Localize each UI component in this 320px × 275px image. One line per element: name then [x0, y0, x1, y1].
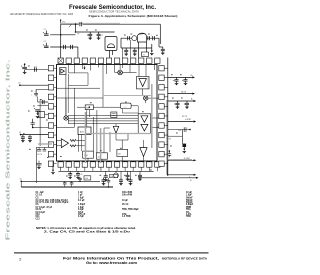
- capacitor C21 junction: [31, 122, 35, 124]
- capacitor C41 to ground: [77, 171, 79, 173]
- gray streak interior h: [86, 133, 152, 135]
- capacitor C50 bottom: [130, 178, 132, 180]
- mixer X1 crossed circle: [118, 70, 123, 75]
- capacitor C11 series: [147, 36, 149, 40]
- wire right bus: [167, 58, 169, 177]
- svg-text:C8 %: C8 %: [36, 209, 42, 211]
- wire interior verticals: [65, 75, 67, 116]
- svg-text:C9 C8: C9 C8: [37, 154, 42, 156]
- capacitor C33 to ground: [186, 101, 188, 103]
- svg-text:VB: VB: [190, 180, 192, 182]
- capacitor C25 to ground: [37, 162, 42, 164]
- op-amp A4 triangle: [61, 139, 68, 148]
- svg-text:C2 0.1: C2 0.1: [36, 194, 43, 196]
- svg-text:C1: C1: [44, 29, 46, 31]
- wire STBY line: [168, 159, 194, 161]
- svg-text:Figure 4. Applications Schemat: Figure 4. Applications Schematic (MC3411…: [89, 14, 178, 18]
- block AGC box: [78, 127, 91, 135]
- arrow down interior: [84, 66, 86, 68]
- svg-text:2: 2: [19, 257, 21, 261]
- wire pin stubs right: [164, 67, 168, 69]
- capacitor C22 to ground: [22, 135, 24, 137]
- svg-text:ARCHIVED BY FREESCALE SEMICOND: ARCHIVED BY FREESCALE SEMICONDUCTOR, INC…: [10, 12, 73, 16]
- svg-text:C4: C4: [80, 174, 82, 176]
- tiny value labels: [86, 30, 88, 31]
- wire bottom bus: [58, 170, 153, 172]
- wire bias: [77, 106, 85, 108]
- wire second top line: [76, 31, 115, 33]
- svg-text:1.0µF: 1.0µF: [186, 194, 193, 196]
- capacitor C19 series: [41, 100, 43, 104]
- svg-text:C2: C2: [44, 41, 46, 43]
- gray streak right bus: [166, 100, 168, 160]
- wire bottom second: [21, 186, 113, 188]
- svg-text:C36: C36: [85, 178, 88, 180]
- amp A6 triangle down: [140, 148, 147, 157]
- wire Vb line: [166, 160, 168, 175]
- crystal Y1 can: [138, 33, 147, 42]
- svg-text:1 µF: 1 µF: [78, 194, 83, 196]
- wire top pin drops: [74, 63, 76, 73]
- circle jack J3: [114, 173, 119, 178]
- capacitor C12 plus: [152, 36, 154, 40]
- wire oscillator main: [121, 37, 159, 39]
- wire amp4: [57, 140, 62, 142]
- wire R line: [168, 135, 183, 137]
- svg-text:C34: C34: [178, 130, 181, 132]
- svg-text:RX TX: RX TX: [182, 116, 188, 118]
- summer S1 rounded box: [120, 103, 131, 108]
- node J2 wire: [20, 134, 22, 136]
- wire interior connects: [57, 97, 104, 99]
- mixer X2 crossed circle: [144, 96, 148, 100]
- wire cap row: [168, 129, 190, 131]
- capacitor C3 series lower: [63, 45, 65, 49]
- wire from input caps lower: [50, 46, 78, 48]
- block BIAS box: [85, 105, 93, 110]
- capacitor C2 electrolytic input: [44, 45, 49, 47]
- svg-text:MC IN: MC IN: [181, 91, 187, 93]
- microphone MK1: [105, 37, 117, 51]
- svg-text:25.4 k: 25.4 k: [122, 203, 129, 206]
- capacitor C23 to ground: [29, 135, 31, 137]
- node VCC top-left: [60, 20, 62, 24]
- capacitor C34: [183, 127, 185, 132]
- pin 1 index mark: [58, 58, 63, 63]
- capacitor C43 to ground: [127, 173, 129, 175]
- ground arrow osc: [151, 44, 153, 51]
- resistor R3: [70, 145, 76, 147]
- svg-text:+: +: [170, 79, 171, 81]
- component box small on bus: [84, 176, 91, 180]
- svg-text:C12: C12: [36, 218, 41, 220]
- capacitor C6 to ground: [89, 32, 91, 34]
- wire to pin row1: [25, 69, 49, 71]
- svg-text:4.7µF: 4.7µF: [78, 215, 85, 218]
- wire interior h1: [57, 87, 101, 89]
- svg-text:OSC: OSC: [84, 155, 89, 157]
- svg-text:Go to: www.freescale.com: Go to: www.freescale.com: [86, 261, 137, 265]
- wire dual out: [151, 117, 159, 119]
- capacitor C20 electrolytic: [35, 109, 40, 111]
- gray scan streak on top rail: [60, 22, 120, 24]
- node J4 bottom-left wire: [20, 181, 22, 183]
- svg-text:-8 STBY: -8 STBY: [185, 119, 192, 121]
- svg-text:For More Information On This P: For More Information On This Product,: [63, 256, 159, 260]
- capacitor C31 to ground: [185, 77, 187, 79]
- wire osc drops: [138, 42, 140, 58]
- mixer X3 crossed circle left: [64, 116, 68, 120]
- cluster caps mid: [79, 177, 81, 179]
- capacitor C40 to ground: [69, 171, 71, 173]
- capacitor C36 small: [168, 153, 172, 155]
- capacitor C32 to ground: [177, 101, 179, 103]
- IC top pin row (pins 1-13): [58, 58, 63, 63]
- amp A5 small triangle: [113, 126, 118, 133]
- wire mid-left upper: [36, 89, 48, 91]
- gray streak horizontal: [38, 143, 52, 145]
- op-amp U1 IC body outline: [57, 65, 158, 162]
- component box B1: [39, 112, 45, 118]
- svg-text:C48: C48: [110, 176, 113, 178]
- svg-text:A+: A+: [191, 98, 193, 101]
- svg-text:TBA: TBA: [186, 208, 191, 211]
- gray streak stby: [169, 159, 193, 161]
- IC right pin column: [159, 66, 164, 71]
- svg-text:MOTOROLA RF DEVICE DATA: MOTOROLA RF DEVICE DATA: [162, 256, 208, 260]
- block DAC box: [111, 112, 117, 117]
- wire amp feeds: [138, 63, 140, 76]
- capacitor C46 between: [71, 181, 73, 183]
- capacitor C48 bottom: [103, 178, 105, 180]
- op-amp A2 box with down triangle: [137, 77, 150, 89]
- gray streak interior 3: [151, 84, 153, 148]
- capacitor C13 to ground: [125, 48, 127, 50]
- capacitor C42 to ground: [105, 174, 107, 176]
- wire top rail: [61, 23, 79, 25]
- wire RX line: [168, 121, 194, 123]
- capacitor C49 bottom: [120, 178, 122, 180]
- gray streak interior h2: [103, 95, 152, 97]
- wire to pin: [45, 114, 49, 116]
- svg-text:0.1 µF: 0.1 µF: [78, 200, 85, 202]
- capacitor C35 dark: [183, 144, 187, 147]
- wire mid-left: [38, 101, 49, 103]
- component box X2: [142, 52, 149, 57]
- wire interior loop: [69, 63, 89, 85]
- svg-text:TBD, TBD 33µF: TBD, TBD 33µF: [122, 209, 139, 211]
- wire left pin stubs: [54, 67, 57, 69]
- capacitor C24 pair: [37, 149, 41, 151]
- resistor R2: [70, 140, 76, 142]
- block MUTE box: [117, 149, 128, 156]
- capacitor C18 to ground small: [34, 92, 38, 94]
- block OSC box: [83, 151, 94, 158]
- op-amp A1 box top-left: [60, 68, 66, 75]
- wire bus drop: [67, 116, 69, 124]
- svg-text:100 nF/W: 100 nF/W: [122, 194, 133, 196]
- capacitor C30 to ground: [176, 77, 178, 79]
- svg-text:X1: X1: [143, 54, 145, 56]
- block FLT box: [96, 153, 107, 159]
- svg-text:C7: C7: [101, 35, 103, 37]
- capacitor C45 between: [64, 181, 66, 183]
- wire osc to right cap: [158, 38, 160, 47]
- capacitor C1 electrolytic input: [44, 33, 49, 35]
- wire from input caps upper: [50, 34, 75, 36]
- wire bottom right out: [138, 177, 196, 179]
- gray streak interior 2: [100, 128, 102, 163]
- wire bottom pin drops: [60, 167, 62, 171]
- svg-text:10 µF: 10 µF: [122, 200, 129, 202]
- wire mixer2: [148, 97, 159, 99]
- wire left drop: [35, 147, 37, 183]
- capacitor C14 to ground: [134, 48, 136, 50]
- svg-text:NOTES: 1. All resistors are ±: NOTES: 1. All resistors are ±5%, all cap…: [36, 227, 136, 230]
- wire lower left: [36, 146, 48, 148]
- wire AUX line: [168, 100, 194, 102]
- IC left pin column: [48, 66, 53, 71]
- switch tick: [69, 24, 72, 27]
- wire MC line: [168, 93, 193, 95]
- svg-text:TBD: TBD: [186, 216, 191, 218]
- capacitor C47 between: [108, 178, 110, 181]
- wire B+ line: [168, 76, 193, 78]
- wire bus 4lines: [68, 115, 138, 117]
- svg-text:Freescale Semiconductor, Inc.: Freescale Semiconductor, Inc.: [5, 59, 11, 241]
- svg-text:C5 47 % 100, C4F 100% 47µFd: C5 47 % 100, C4F 100% 47µFd: [36, 201, 69, 204]
- svg-text:AGC: AGC: [80, 130, 85, 133]
- wire interior extra verticals: [78, 135, 80, 152]
- node J1 wire: [19, 84, 21, 86]
- transistor Q1 osc circle: [132, 36, 137, 41]
- capacitor C17 series: [34, 68, 36, 72]
- wire a5: [115, 124, 117, 127]
- wire to mixer: [115, 72, 118, 74]
- IC bottom pin row: [58, 162, 63, 167]
- gray streak interior 1: [85, 112, 87, 163]
- svg-text:C17: C17: [34, 66, 37, 68]
- svg-text:0.1µF: 0.1µF: [78, 209, 85, 211]
- capacitor C7 to ground: [98, 32, 100, 34]
- capacitor C10 series: [127, 36, 129, 40]
- gray scan streak left: [39, 99, 41, 146]
- svg-text:R1: R1: [169, 138, 171, 140]
- svg-text:2. Cap C4, C5 and Cxx Bias § 1: 2. Cap C4, C5 and Cxx Bias § 1/5 v.Do: [44, 230, 131, 233]
- op-amp A3 dual box: [138, 114, 151, 134]
- capacitor C15 to ground: [162, 47, 164, 49]
- capacitor C5 series in rail: [79, 22, 81, 26]
- capacitor C44 to ground: [139, 173, 141, 175]
- svg-text:1.4 TBD: 1.4 TBD: [122, 215, 131, 218]
- capacitor C16 electrolytic with ground: [22, 66, 27, 68]
- footer rule: [14, 252, 209, 253]
- ground arrow left: [52, 166, 54, 170]
